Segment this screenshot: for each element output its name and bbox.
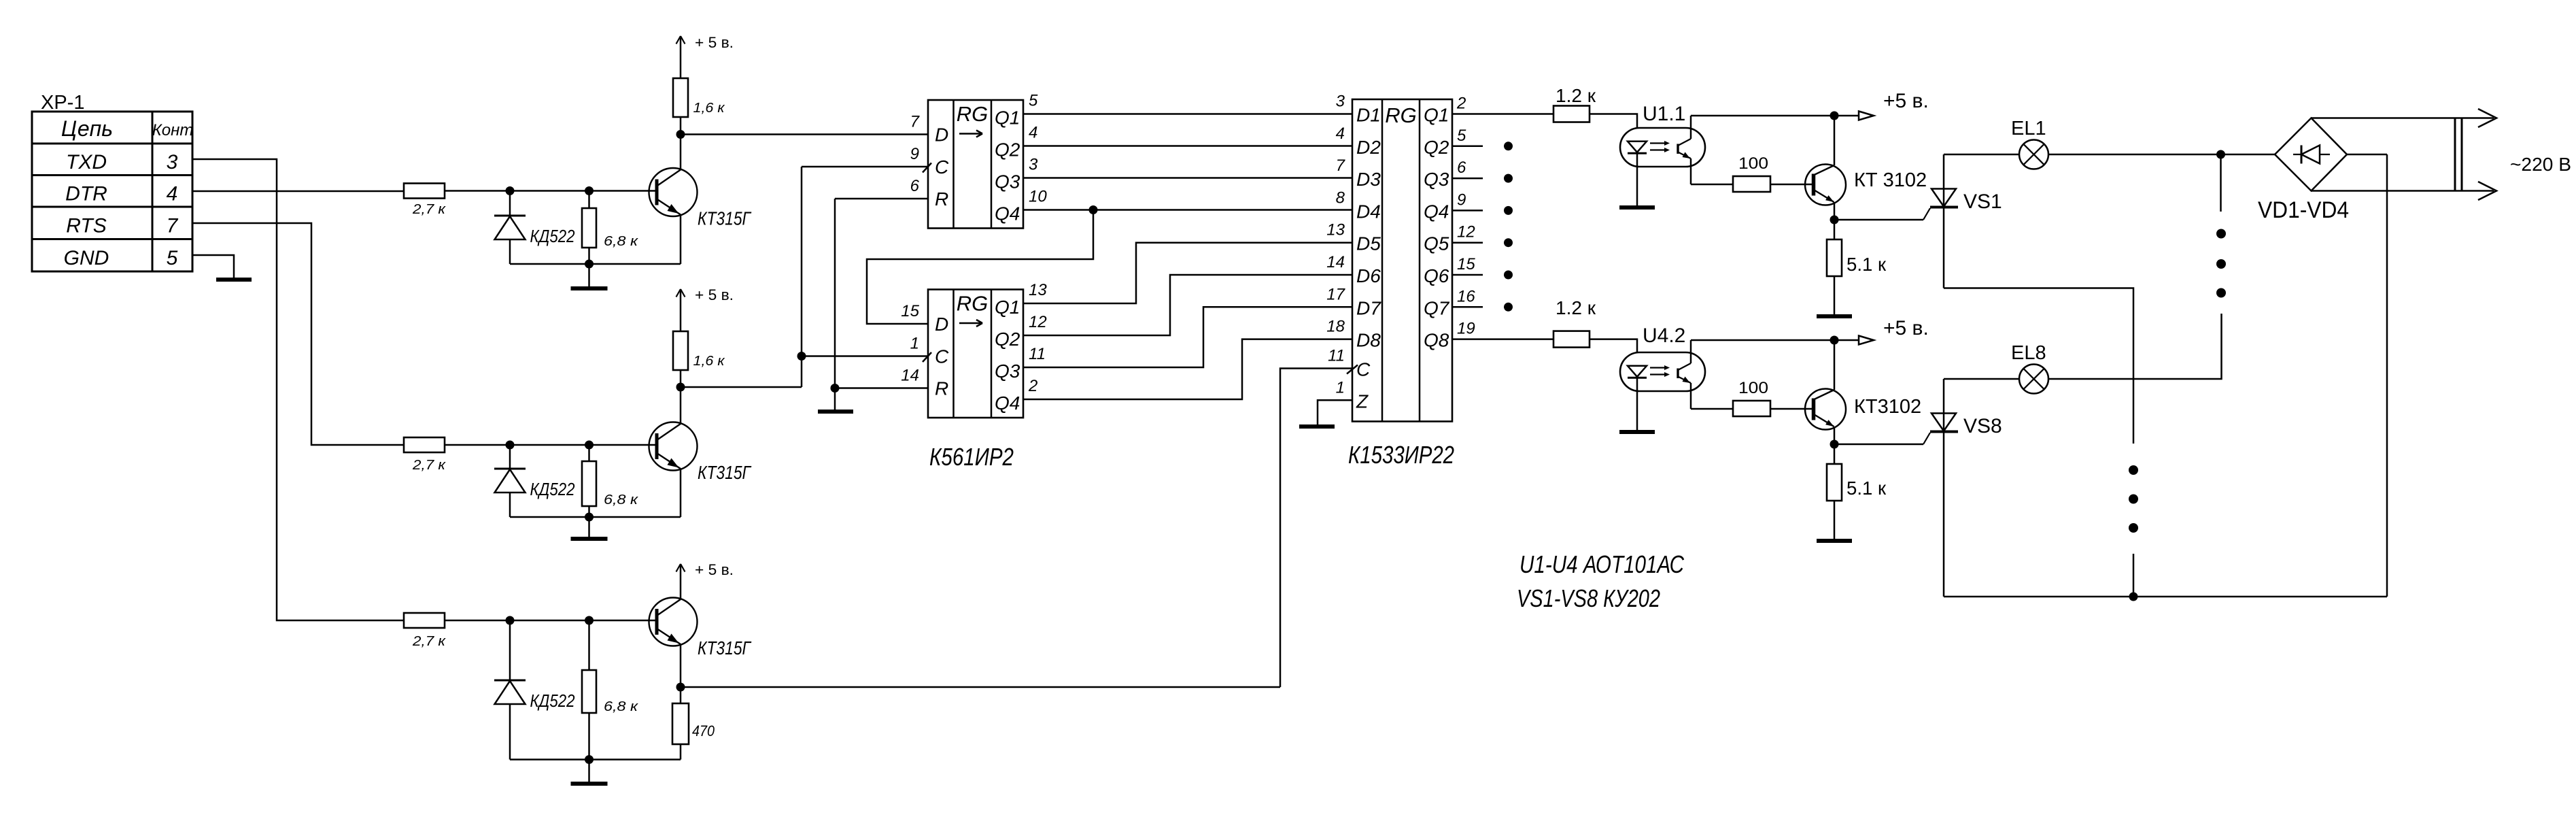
svg-text:VS1: VS1 xyxy=(1963,190,2002,213)
svg-text:Q7: Q7 xyxy=(1424,297,1450,318)
svg-text:6,8 к: 6,8 к xyxy=(604,234,639,249)
svg-text:К561ИР2: К561ИР2 xyxy=(929,443,1014,471)
svg-text:EL8: EL8 xyxy=(2011,342,2046,364)
svg-text:4: 4 xyxy=(1336,124,1345,143)
svg-text:C: C xyxy=(1356,359,1371,380)
svg-text:470: 470 xyxy=(692,722,715,739)
svg-text:RG: RG xyxy=(957,292,989,316)
svg-text:Q4: Q4 xyxy=(995,203,1020,224)
svg-text:Q5: Q5 xyxy=(1424,233,1449,254)
svg-text:5: 5 xyxy=(1029,92,1038,110)
svg-text:Q2: Q2 xyxy=(1424,137,1449,158)
svg-text:К1533ИР22: К1533ИР22 xyxy=(1348,441,1454,469)
svg-text:D7: D7 xyxy=(1356,297,1381,318)
svg-text:5: 5 xyxy=(1457,127,1466,145)
svg-text:100: 100 xyxy=(1738,154,1768,173)
svg-text:D6: D6 xyxy=(1356,265,1381,286)
svg-text:VD1-VD4: VD1-VD4 xyxy=(2258,197,2349,223)
svg-text:6,8 к: 6,8 к xyxy=(604,699,639,714)
svg-text:9: 9 xyxy=(910,145,919,163)
svg-text:Q2: Q2 xyxy=(995,139,1020,161)
svg-text:U4.2: U4.2 xyxy=(1643,324,1685,347)
svg-text:~220 В: ~220 В xyxy=(2510,154,2571,175)
svg-text:13: 13 xyxy=(1326,221,1345,239)
svg-text:1.2 к: 1.2 к xyxy=(1556,297,1596,318)
svg-text:+5 в.: +5 в. xyxy=(1883,90,1929,112)
svg-text:D4: D4 xyxy=(1356,201,1381,222)
svg-text:15: 15 xyxy=(901,302,919,320)
svg-text:XP-1: XP-1 xyxy=(41,92,84,114)
svg-text:1,6 к: 1,6 к xyxy=(693,354,726,369)
svg-text:Q1: Q1 xyxy=(995,297,1020,318)
svg-text:2: 2 xyxy=(1028,377,1037,395)
svg-text:VS1-VS8 КУ202: VS1-VS8 КУ202 xyxy=(1517,584,1660,612)
svg-text:RTS: RTS xyxy=(66,215,106,237)
svg-text:Q1: Q1 xyxy=(995,107,1020,129)
svg-text:EL1: EL1 xyxy=(2011,118,2046,139)
svg-text:+ 5 в.: + 5 в. xyxy=(695,286,734,303)
svg-text:15: 15 xyxy=(1457,255,1475,273)
svg-text:D: D xyxy=(935,314,948,335)
svg-text:U1-U4 АОТ101АС: U1-U4 АОТ101АС xyxy=(1519,550,1685,578)
svg-text:+5 в.: +5 в. xyxy=(1883,317,1929,339)
svg-text:1: 1 xyxy=(1336,378,1345,397)
svg-text:1: 1 xyxy=(910,335,919,353)
svg-text:DTR: DTR xyxy=(65,183,107,205)
svg-text:Q1: Q1 xyxy=(1424,105,1449,126)
svg-text:6,8 к: 6,8 к xyxy=(604,493,639,507)
svg-text:Z: Z xyxy=(1356,390,1369,412)
svg-text:12: 12 xyxy=(1029,313,1047,331)
svg-text:3: 3 xyxy=(167,151,178,173)
svg-text:+ 5 в.: + 5 в. xyxy=(695,561,734,578)
svg-text:2,7 к: 2,7 к xyxy=(412,634,447,649)
svg-text:GND: GND xyxy=(64,247,109,269)
svg-text:16: 16 xyxy=(1457,287,1475,305)
svg-text:14: 14 xyxy=(1326,253,1345,271)
svg-text:VS8: VS8 xyxy=(1963,415,2002,437)
svg-text:RG: RG xyxy=(1385,103,1417,127)
svg-text:КТ3102: КТ3102 xyxy=(1854,396,1921,418)
svg-text:Q8: Q8 xyxy=(1424,330,1449,351)
svg-text:18: 18 xyxy=(1326,318,1345,336)
svg-text:1.2 к: 1.2 к xyxy=(1556,85,1596,106)
svg-text:1,6 к: 1,6 к xyxy=(693,101,726,116)
svg-text:3: 3 xyxy=(1029,156,1038,174)
svg-text:D: D xyxy=(935,124,948,146)
svg-text:Q4: Q4 xyxy=(1424,201,1449,222)
svg-text:D1: D1 xyxy=(1356,105,1381,126)
svg-text:6: 6 xyxy=(910,177,920,195)
svg-text:КТ315Г: КТ315Г xyxy=(698,208,751,229)
svg-text:11: 11 xyxy=(1328,347,1345,365)
svg-text:Конт: Конт xyxy=(152,121,194,139)
svg-text:9: 9 xyxy=(1457,190,1466,209)
svg-text:3: 3 xyxy=(1336,93,1345,111)
svg-text:C: C xyxy=(935,346,949,367)
svg-text:КТ 3102: КТ 3102 xyxy=(1854,169,1927,191)
svg-text:RG: RG xyxy=(957,102,989,126)
svg-text:4: 4 xyxy=(167,183,178,205)
svg-text:2: 2 xyxy=(1456,95,1466,113)
svg-text:12: 12 xyxy=(1457,223,1475,241)
svg-text:7: 7 xyxy=(167,215,179,237)
svg-text:D8: D8 xyxy=(1356,330,1381,351)
svg-text:КД522: КД522 xyxy=(530,690,575,711)
svg-text:7: 7 xyxy=(910,113,921,131)
svg-text:Q6: Q6 xyxy=(1424,265,1449,286)
svg-text:КТ315Г: КТ315Г xyxy=(698,462,751,483)
svg-text:Q2: Q2 xyxy=(995,329,1020,350)
svg-text:10: 10 xyxy=(1029,188,1047,206)
svg-text:7: 7 xyxy=(1336,156,1346,175)
svg-text:Q3: Q3 xyxy=(995,171,1020,193)
svg-text:11: 11 xyxy=(1029,345,1046,363)
svg-text:R: R xyxy=(935,378,948,399)
svg-text:5: 5 xyxy=(167,247,178,269)
svg-text:C: C xyxy=(935,156,949,178)
svg-text:17: 17 xyxy=(1326,285,1345,303)
svg-text:КТ315Г: КТ315Г xyxy=(698,637,751,658)
svg-text:D3: D3 xyxy=(1356,169,1381,190)
svg-text:Цепь: Цепь xyxy=(61,116,113,141)
svg-text:8: 8 xyxy=(1336,188,1345,207)
svg-text:КД522: КД522 xyxy=(530,226,575,246)
svg-text:5.1 к: 5.1 к xyxy=(1847,478,1887,499)
svg-text:14: 14 xyxy=(901,367,919,385)
svg-text:+ 5 в.: + 5 в. xyxy=(695,34,734,51)
svg-text:Q3: Q3 xyxy=(995,361,1020,382)
svg-text:КД522: КД522 xyxy=(530,479,575,499)
svg-text:2,7 к: 2,7 к xyxy=(412,202,447,217)
svg-text:6: 6 xyxy=(1457,159,1466,177)
svg-text:U1.1: U1.1 xyxy=(1643,103,1685,125)
svg-text:Q3: Q3 xyxy=(1424,169,1449,190)
svg-text:19: 19 xyxy=(1457,320,1475,338)
svg-text:5.1 к: 5.1 к xyxy=(1847,254,1887,275)
svg-text:D5: D5 xyxy=(1356,233,1381,254)
svg-text:TXD: TXD xyxy=(66,151,107,173)
svg-text:100: 100 xyxy=(1738,379,1768,397)
svg-text:2,7 к: 2,7 к xyxy=(412,458,447,473)
svg-text:Q4: Q4 xyxy=(995,393,1020,414)
svg-text:D2: D2 xyxy=(1356,137,1381,158)
svg-text:4: 4 xyxy=(1029,124,1037,142)
svg-text:R: R xyxy=(935,188,948,210)
svg-text:13: 13 xyxy=(1029,281,1047,299)
